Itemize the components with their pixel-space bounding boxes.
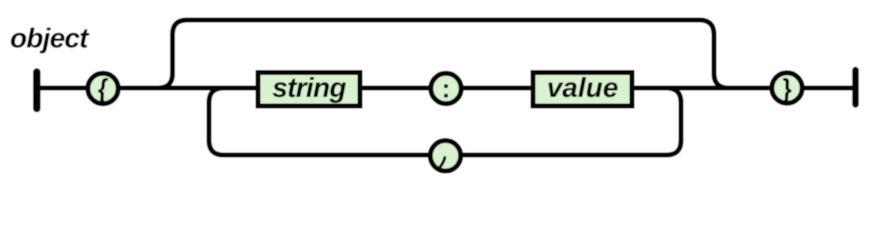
wire top bypass loop xyxy=(158,20,729,88)
start terminal bar xyxy=(33,72,41,109)
svg-text::: : xyxy=(442,74,451,104)
wire main rail xyxy=(36,86,856,91)
svg-text:string: string xyxy=(272,72,346,103)
svg-text:value: value xyxy=(547,72,619,103)
wire bottom repeat loop xyxy=(209,88,681,155)
terminal , xyxy=(430,141,461,172)
terminal { xyxy=(88,73,119,104)
terminal } xyxy=(772,73,803,104)
svg-text:object: object xyxy=(10,23,90,54)
nonterminal string xyxy=(258,72,360,106)
end terminal bar xyxy=(852,70,859,105)
svg-text:}: } xyxy=(781,73,792,104)
nonterminal value xyxy=(533,72,632,106)
terminal : xyxy=(431,73,462,104)
